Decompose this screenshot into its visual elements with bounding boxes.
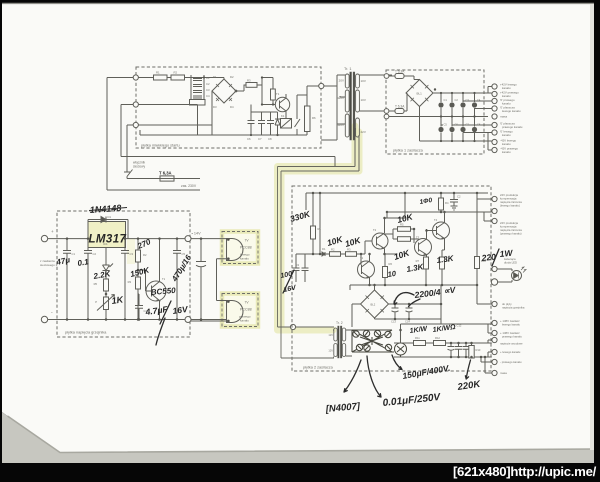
capacitor C12 [463,343,470,357]
capacitor C6 [248,112,255,135]
value label 1N4148 (crossed out) [55,197,514,415]
node: board1 output terminals [492,84,497,153]
fuse T6,3A [160,176,174,181]
svg-text:C3: C3 [130,252,134,256]
capacitor C6 output electrolytic [196,239,206,320]
arrow to 150uF [392,355,402,370]
svg-text:R5: R5 [94,282,98,286]
svg-text:C1: C1 [72,252,76,256]
wire rails lower right [394,324,488,357]
svg-text:R2: R2 [174,71,178,75]
svg-text:BL1: BL1 [417,92,423,96]
wire emitter mid rail [350,285,477,290]
resistor R10 220/1W [475,257,480,269]
highlight LM317 [88,221,126,248]
highlight connector boxes [222,232,258,264]
wire switch to fuse [127,178,160,180]
svg-text:C13: C13 [391,320,396,324]
svg-text:C1: C1 [444,98,448,102]
node: terminal on board2 left edge [290,324,295,329]
mains input wiring [107,78,335,191]
svg-text:C5: C5 [444,123,448,127]
wire bottom rail [48,319,185,321]
node: +14V output terminal [185,236,191,242]
wire Tr.1 primary connections [321,75,392,171]
wire to connectors [191,239,227,320]
wire terminal2 to cap bank [138,105,197,136]
svg-text:C6: C6 [247,137,251,141]
svg-text:R6: R6 [312,116,316,120]
svg-text:R11: R11 [415,336,420,340]
svg-text:Tr. 1: Tr. 1 [344,67,351,71]
resistor R2 [171,75,185,80]
svg-text:T4: T4 [434,218,438,222]
soft-start board dashed box [136,67,321,148]
wire top rail board2 [306,192,488,194]
node: input terminals [41,235,47,241]
svg-text:płytka miękkiego startu: płytka miękkiego startu [141,144,180,148]
connector J2 lower PCC88 [227,301,244,323]
svg-text:D3: D3 [213,105,217,109]
svg-text:sieciowy: sieciowy [133,165,145,169]
thyristor-style adj diode [103,264,114,271]
svg-text:C6: C6 [455,123,459,127]
svg-text:zas. 230V: zas. 230V [181,184,197,188]
capacitor C8 [267,112,274,135]
svg-text:R2: R2 [331,248,335,252]
junction dots [66,237,203,320]
transformer Tr.2 [334,326,346,358]
capacitor C9 round [395,343,407,355]
resistor R2 10K [330,252,341,257]
svg-text:R3: R3 [247,79,251,83]
relay K1 coil [281,119,292,129]
node: board1 left terminals [384,74,389,79]
resistor R3 [246,83,257,88]
capacitor C13 [392,304,399,319]
svg-text:C3: C3 [296,263,300,267]
svg-text:22V: 22V [361,130,366,134]
svg-text:dioda LED: dioda LED [504,261,517,265]
page bottom edge shading [8,416,595,453]
svg-text:C7: C7 [258,137,262,141]
capacitor C2 [84,248,92,320]
cap columns [441,93,475,141]
svg-text:masa: masa [500,371,507,375]
wire bridge out [236,78,275,105]
svg-text:płytka napięcia grzejnika: płytka napięcia grzejnika [65,331,107,335]
svg-text:K1: K1 [281,114,285,118]
svg-text:C1: C1 [206,76,210,80]
handwritten strokes / slashes [156,249,499,397]
resistor R1 330K [311,226,316,239]
svg-text:lewego kanału: lewego kanału [502,109,521,113]
wire pair descending to Tr.2 (highlighted) [278,167,360,359]
capacitor C5 [190,100,206,106]
wire terminal3 to bridge [138,78,224,136]
node: output terminal box1 [319,83,324,88]
resistor R6 10 [383,267,388,278]
capacitor C4 [135,294,143,320]
diode bridge BR1 board1 [406,80,433,107]
svg-text:(lewego kanału): (lewego kanału) [500,204,520,208]
capacitor C7 [258,112,265,135]
LED D-LED [497,269,512,282]
svg-text:R13: R13 [476,348,481,352]
svg-text:10V: 10V [361,79,366,83]
slash in 4.7uF/16V + tail [156,301,171,345]
resistor R9 1.3K [440,257,445,269]
scanner gray band bottom [2,412,594,463]
svg-text:C12: C12 [457,324,462,328]
svg-text:T1: T1 [276,92,280,96]
slash in 220/1W [492,249,499,266]
svg-text:prawego kanału: prawego kanału [502,335,522,339]
junction dots board2 [312,192,479,321]
wire base rail to T2 [361,241,372,254]
svg-text:T1: T1 [360,256,364,260]
svg-text:kanału: kanału [240,319,249,323]
wire 22V winding down (under highlight) [355,128,359,171]
svg-text:20V: 20V [339,79,344,83]
arrow to 0.01uF [367,356,381,397]
capacitor C10 [448,343,455,357]
heater voltage board dashed box [57,211,190,337]
svg-text:sieciowego 2: sieciowego 2 [40,263,58,267]
svg-text:12V: 12V [328,333,333,337]
transistor T2 board2 [372,233,388,249]
svg-text:T1: T1 [162,277,166,281]
arrow to 220K [465,360,470,379]
slash in 100/16V [283,270,294,293]
capacitor C4 100/16V [293,254,306,282]
svg-text:T2: T2 [373,228,377,232]
capacitor C11 [455,343,462,357]
svg-text:T 6,3A: T 6,3A [395,105,405,109]
resistor R5 tall [305,106,311,132]
transistor T1 (soft start) [275,97,289,111]
connector J1 upper PCC88 [227,239,244,261]
svg-text:T 6,3A: T 6,3A [395,70,405,74]
wires to lower terminals [481,324,492,373]
svg-text:12V: 12V [328,349,333,353]
resistor R3 150K [136,277,141,289]
svg-text:R12: R12 [435,336,440,340]
svg-text:C8: C8 [268,137,272,141]
diode D1 bypass wire [88,220,128,239]
potentiometer P 1K [104,297,109,310]
svg-text:płytka 1 zasilacza: płytka 1 zasilacza [393,149,424,153]
capacitor C5 [173,239,181,320]
svg-text:masa: masa [500,115,507,119]
diode D1 small [322,252,325,256]
svg-text:+ lewego kanału: + lewego kanału [500,350,521,354]
transformer Tr.1 [345,72,359,140]
svg-text:D2: D2 [230,75,234,79]
wire top rail [48,238,185,240]
op-amp U1 regulator LM317 body [88,222,126,248]
svg-text:kanału: kanału [240,257,249,261]
svg-text:[621x480]http://upic.me/: [621x480]http://upic.me/ [453,464,597,479]
svg-text:C8: C8 [477,123,481,127]
svg-text:LM317: LM317 [89,234,127,246]
svg-text:D1: D1 [108,215,112,219]
svg-text:kanału: kanału [502,142,511,146]
svg-text:R4: R4 [445,201,449,205]
highlighted mains pair to Tr.2 [278,126,356,330]
resistor R4 [271,89,276,100]
wire to right terminal [307,86,319,95]
fuse F1 [389,75,395,77]
resistor R1 [154,75,168,80]
resistor R5 [104,279,109,291]
svg-text:C4: C4 [206,94,210,98]
capacitors C5-C8 [438,127,443,132]
svg-text:D4: D4 [230,105,234,109]
printed labels heater board [72,215,186,313]
transistor T3 board2 [415,239,432,256]
svg-text:kanału: kanału [502,133,511,137]
diode D5 [275,112,280,135]
wire T2 collector [385,193,406,218]
capacitor C14 [406,304,413,319]
svg-text:R2: R2 [143,253,147,257]
wire mid divider rail [313,253,322,255]
svg-text:lewego kanału: lewego kanału [502,323,520,327]
svg-text:C2: C2 [457,195,461,199]
resistor R2 270 [136,250,141,262]
resistor R5b 10K [398,237,411,242]
svg-text:1W: 1W [499,248,514,259]
svg-text:R6: R6 [389,262,393,266]
svg-text:płytka 2 zasilacza: płytka 2 zasilacza [303,366,334,370]
svg-text:napięcie anodowe: napięcie anodowe [500,342,523,346]
capacitor C3 [121,239,129,320]
supply board 1 dashed box [386,70,484,154]
svg-text:T3: T3 [416,236,420,240]
svg-text:C2: C2 [206,82,210,86]
relay contact [295,119,301,135]
svg-text:R1: R1 [318,227,322,231]
capacitor C2 + ground [450,193,458,210]
resistor R7 1.3K [424,257,429,269]
svg-text:10V: 10V [361,98,366,102]
diode bridge B1 (soft start) [212,79,236,103]
svg-text:BL2: BL2 [371,303,376,307]
svg-text:PCC88: PCC88 [240,246,252,250]
wire top rail box1 [138,75,204,78]
supply board 2 dashed box [292,186,491,371]
svg-text:C14: C14 [405,320,410,324]
svg-text:R3: R3 [128,280,132,284]
svg-text:C3: C3 [466,98,470,102]
terminal stub wires [441,101,492,133]
wire Tr.1 secondary to fuses [359,75,392,111]
capacitors C1-C4 [438,102,477,132]
svg-text:P: P [95,300,97,304]
switch (wlacznik sieciowy) [124,170,133,179]
svg-text:Tr. 2: Tr. 2 [336,321,343,325]
arrow to C13 from 2200/4 [394,293,414,304]
transistor T1 BC550 [146,281,166,301]
resistor R5a 10K [398,227,411,232]
diode cluster (1N4007 bridge + heater caps) [352,330,407,357]
svg-text:prawego kanału: prawego kanału [502,125,523,129]
svg-text:C2: C2 [455,98,459,102]
junction dots board1 [434,88,476,142]
junction dots [203,76,279,136]
right edge shadow [590,4,594,450]
arrow to 1N4007 [344,360,361,392]
svg-text:C4: C4 [477,98,481,102]
svg-text:C3: C3 [206,88,210,92]
node: board2 right terminals [491,196,497,375]
svg-text:C2: C2 [93,252,97,256]
node: left terminals of soft-start board [133,75,138,80]
capacitor bank C1-C4 [191,75,204,99]
svg-text:+: + [51,229,54,234]
wire from terminal1 down left side [107,78,200,191]
transistor T4 board2 [433,222,450,239]
svg-text:(prawego kanału): (prawego kanału) [500,232,522,236]
svg-text:kanału: kanału [502,150,511,154]
long wire to transformer [121,157,335,167]
svg-text:D1: D1 [213,75,217,79]
wire second vertical [319,193,321,254]
svg-text:R1: R1 [156,71,160,75]
resistor R12 1K/W [434,341,446,346]
resistor R13 220K [469,346,474,359]
top scanner line [2,2,594,4]
capacitor C3 (2u2) [302,254,314,282]
svg-text:C7: C7 [466,123,470,127]
wire from terminal3 to switch [127,125,133,171]
svg-text:D1: D1 [322,247,326,251]
svg-text:- prawego kanału: - prawego kanału [500,360,522,364]
wire rails board1 [389,93,488,141]
capacitor C1 [63,239,71,320]
fuse F2 [389,110,395,112]
resistor R4 [439,198,444,210]
svg-text:napięcia grzejnika: napięcia grzejnika [502,306,525,310]
transistor T1 board2 [358,261,375,278]
svg-text:• 14V: • 14V [192,232,202,236]
diode bridge board2 lower [361,290,389,318]
wire from terminal2 to long rail [121,105,133,157]
wire bottom rail box1 [140,105,307,136]
svg-text:PCC88: PCC88 [240,308,252,312]
resistor R3 10K [346,252,357,257]
svg-text:T 6,3A: T 6,3A [159,171,172,176]
svg-text:kanału: kanału [502,86,511,90]
resistor R11 1K/W [414,341,426,346]
